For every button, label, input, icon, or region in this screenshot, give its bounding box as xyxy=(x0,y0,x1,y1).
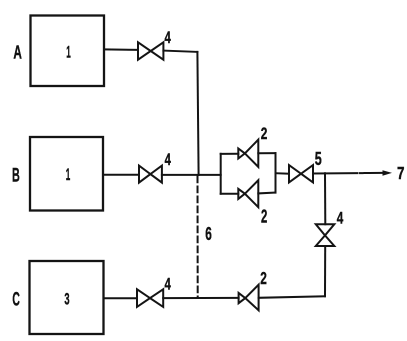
wire: top branch left xyxy=(221,153,239,155)
check valve 2 (bottom branch) xyxy=(238,180,258,207)
wire: valve A to corner xyxy=(163,51,197,52)
node: parallel block left bus xyxy=(220,154,222,194)
svg-text:B: B xyxy=(12,165,20,187)
box 1 (source A) xyxy=(31,16,105,87)
wire: bottom branch left xyxy=(221,193,239,195)
arrowhead 7 xyxy=(383,170,393,176)
wire C: box C to valve xyxy=(104,297,138,299)
wire: dash-dot to arrow 7 xyxy=(360,172,385,174)
wire A: box A to valve xyxy=(104,48,138,51)
svg-text:1: 1 xyxy=(66,165,71,184)
svg-text:4: 4 xyxy=(164,28,171,47)
wire: junction down to valve xyxy=(324,173,326,224)
svg-text:5: 5 xyxy=(315,149,322,169)
box 3 (source C) xyxy=(30,261,104,334)
box 1 (source B) xyxy=(30,137,103,211)
valve 5 xyxy=(289,165,313,182)
valve 4 (line A) xyxy=(138,42,163,59)
svg-text:2: 2 xyxy=(260,268,267,288)
wire 6 (dashed bypass) xyxy=(197,177,199,298)
check valve 2 (line C) xyxy=(239,285,259,311)
svg-text:3: 3 xyxy=(64,289,69,308)
svg-text:A: A xyxy=(13,41,22,62)
wire: right bus to valve 5 xyxy=(276,172,290,175)
valve 4 (line C) xyxy=(137,289,163,307)
node: parallel block right bus xyxy=(275,153,277,193)
svg-text:4: 4 xyxy=(337,209,344,228)
svg-text:6: 6 xyxy=(205,224,212,244)
wire: check valve to right corner xyxy=(259,296,325,298)
wire: bottom branch right xyxy=(258,192,275,195)
svg-text:2: 2 xyxy=(261,124,268,143)
svg-text:C: C xyxy=(12,289,20,310)
wire: valve 5 to junction xyxy=(313,172,357,174)
wire: top branch right xyxy=(258,152,275,154)
valve 4 (line B) xyxy=(139,166,162,183)
wire: valve down to line C corner xyxy=(324,246,326,296)
svg-text:1: 1 xyxy=(66,42,71,61)
valve 4 (vertical) xyxy=(316,224,335,246)
svg-text:4: 4 xyxy=(164,275,171,294)
wire: valve B to parallel block xyxy=(162,174,221,176)
wire: valve C to check valve xyxy=(163,297,238,299)
wire B: box B to valve xyxy=(103,174,139,176)
check valve 2 (top branch) xyxy=(238,140,258,167)
svg-text:4: 4 xyxy=(165,150,172,169)
svg-text:7: 7 xyxy=(397,163,405,183)
svg-text:2: 2 xyxy=(261,206,267,226)
wire: vertical A down to line B xyxy=(197,52,198,175)
